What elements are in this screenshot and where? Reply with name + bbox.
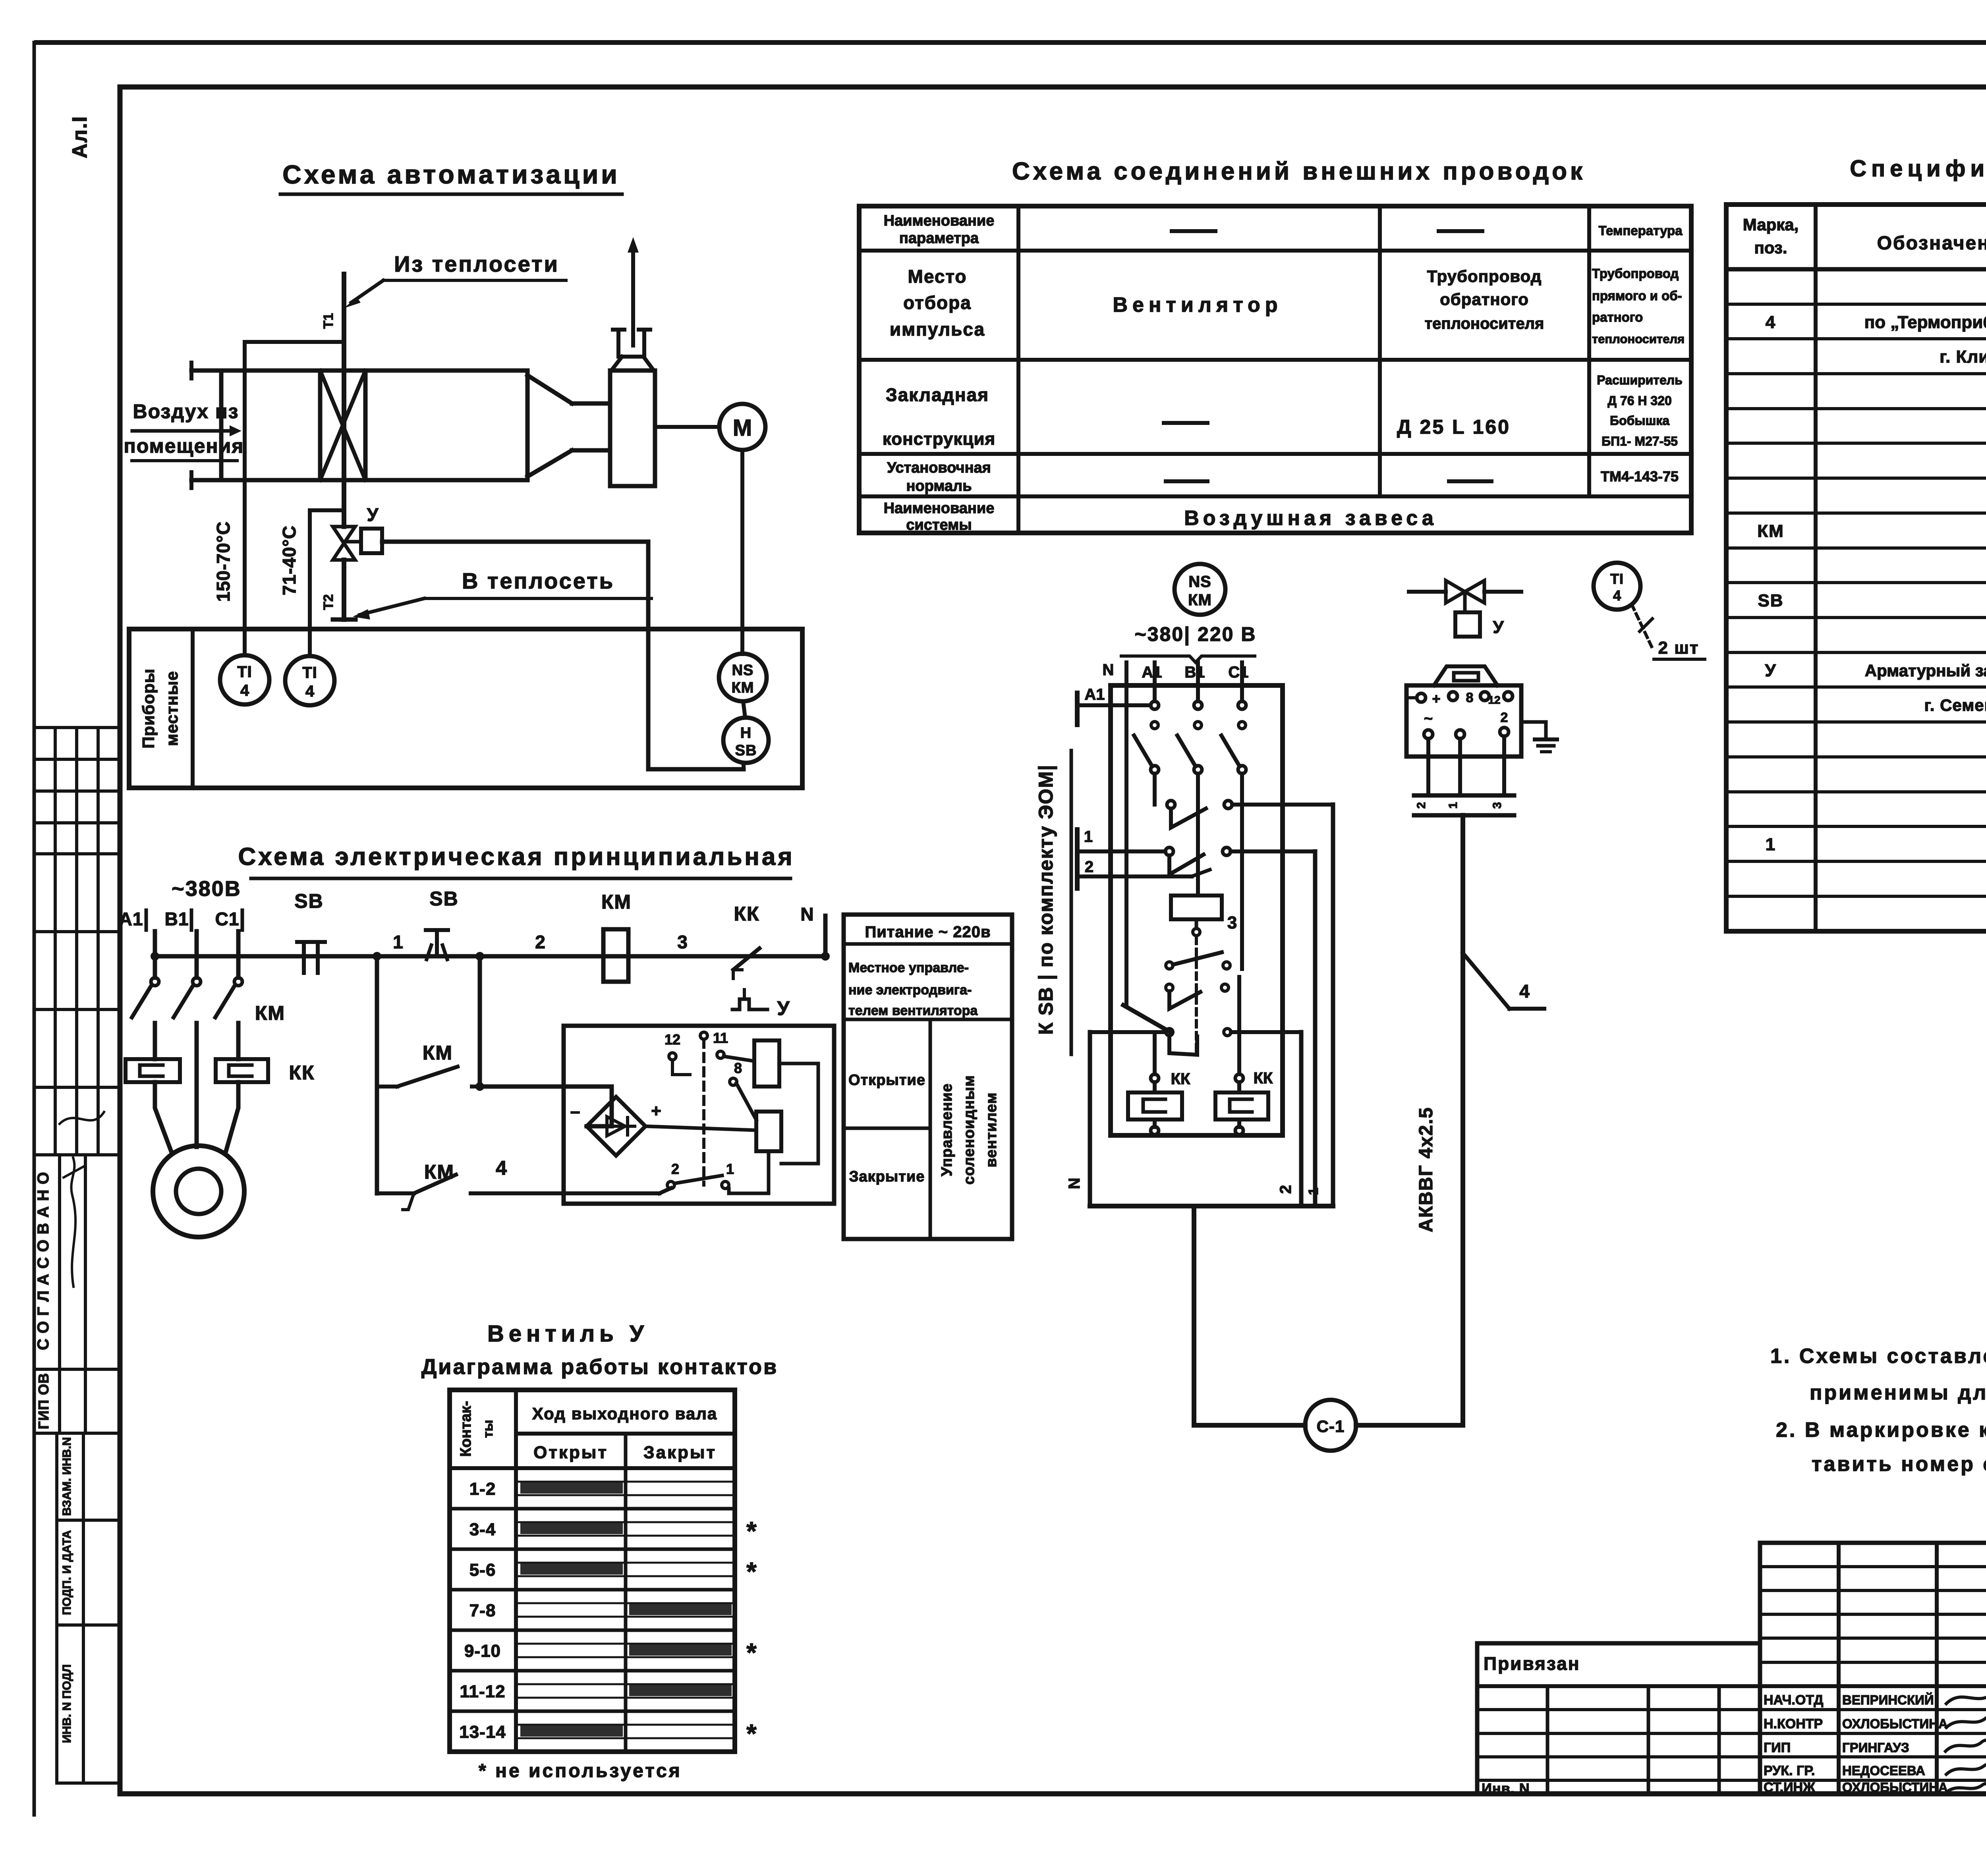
wire solenoid U to panel xyxy=(382,542,744,769)
svg-text:71-40°С: 71-40°С xyxy=(279,525,299,595)
valve terminal box xyxy=(1406,685,1521,757)
svg-text:отбора: отбора xyxy=(903,292,972,313)
svg-text:SB: SB xyxy=(1758,591,1783,610)
left stamp cell Согласовано xyxy=(34,1155,120,1433)
air duct xyxy=(191,363,527,488)
svg-text:КМ: КМ xyxy=(255,1002,285,1024)
long blade and lower contacts xyxy=(1123,1005,1301,1055)
svg-text:8: 8 xyxy=(734,1060,742,1076)
contact diagram table frame xyxy=(450,1390,735,1752)
svg-text:импульса: импульса xyxy=(890,319,985,340)
svg-text:Закрытие: Закрытие xyxy=(849,1168,925,1185)
coil return wires xyxy=(729,1063,818,1193)
svg-text:SB: SB xyxy=(735,742,757,759)
svg-text:ние электродвига-: ние электродвига- xyxy=(848,982,972,998)
contactor coil KM xyxy=(601,891,632,982)
wire M down to NS KM xyxy=(740,450,744,654)
knife contacts 3ph xyxy=(1134,722,1246,805)
svg-text:ты: ты xyxy=(481,1420,496,1438)
svg-text:местные: местные xyxy=(162,671,181,746)
svg-text:Т1: Т1 xyxy=(321,313,336,329)
svg-text:2: 2 xyxy=(1501,710,1508,725)
spec rows content xyxy=(1757,278,1986,923)
svg-text:конструкция: конструкция xyxy=(883,429,995,449)
svg-text:8: 8 xyxy=(1466,690,1474,705)
svg-text:СТ.ИНЖ: СТ.ИНЖ xyxy=(1764,1780,1815,1795)
svg-text:Открытие: Открытие xyxy=(848,1072,925,1089)
svg-text:поз.: поз. xyxy=(1754,238,1787,257)
svg-text:КК: КК xyxy=(1254,1069,1273,1087)
svg-text:Арматурный завод,: Арматурный завод, xyxy=(1865,661,1986,680)
pin 12 xyxy=(665,1031,690,1075)
outer border top xyxy=(37,40,1986,45)
supply drop wires xyxy=(1126,662,1242,1005)
wire tap to TI-2 xyxy=(310,508,341,512)
contact row 3-4 xyxy=(450,1516,757,1549)
svg-text:по „Термоприбор",: по „Термоприбор", xyxy=(1864,313,1986,332)
motor windings wires xyxy=(155,1082,238,1152)
svg-text:N: N xyxy=(800,904,813,924)
svg-text:КМ: КМ xyxy=(601,891,632,913)
svg-text:ратного: ратного xyxy=(1592,310,1643,324)
leader 2 pcs xyxy=(1632,604,1705,659)
svg-text:системы: системы xyxy=(906,517,972,533)
signatures xyxy=(1945,1690,1986,1793)
connections table frame xyxy=(859,206,1691,533)
svg-text:*: * xyxy=(746,1719,757,1748)
header Открыт Закрыт xyxy=(533,1443,717,1462)
terminal row 2 xyxy=(1424,710,1509,739)
svg-text:НАЧ.ОТД: НАЧ.ОТД xyxy=(1764,1693,1823,1708)
terminal strip xyxy=(1414,795,1514,815)
svg-text:БП1- М27-55: БП1- М27-55 xyxy=(1602,434,1678,448)
svg-text:г. Клин: г. Клин xyxy=(1940,347,1986,367)
svg-text:Н.КОНТР: Н.КОНТР xyxy=(1764,1716,1823,1731)
svg-text:12: 12 xyxy=(665,1031,680,1048)
svg-text:У: У xyxy=(367,504,379,525)
bridge dc wire xyxy=(645,1126,756,1130)
svg-text:2: 2 xyxy=(671,1161,679,1177)
svg-text:ТI: ТI xyxy=(1610,571,1624,587)
svg-text:3: 3 xyxy=(677,932,688,952)
mechanical link dashed xyxy=(700,1032,707,1185)
svg-text:4: 4 xyxy=(1519,981,1530,1002)
local control legend table xyxy=(844,915,1012,1239)
svg-text:ОХЛОБЫСТИНА: ОХЛОБЫСТИНА xyxy=(1842,1780,1948,1795)
svg-text:А1: А1 xyxy=(1084,686,1105,703)
svg-text:КМ: КМ xyxy=(1757,521,1784,541)
svg-text:4: 4 xyxy=(1613,587,1621,604)
svg-text:ГИП: ГИП xyxy=(1764,1740,1791,1755)
svg-text:Контак-: Контак- xyxy=(458,1401,474,1457)
starter cabinet box xyxy=(1111,685,1283,1135)
label Воздух из помещения xyxy=(124,400,244,461)
heater element C xyxy=(1215,1082,1268,1119)
svg-text:Бобышка: Бобышка xyxy=(1610,413,1669,428)
svg-text:13-14: 13-14 xyxy=(459,1722,506,1742)
instrument TI (wiring dwg) xyxy=(1594,563,1640,610)
svg-text:Закрыт: Закрыт xyxy=(643,1443,717,1462)
svg-text:Д 25 L 160: Д 25 L 160 xyxy=(1397,416,1511,438)
label Из теплосети with leader arrow xyxy=(344,251,566,308)
svg-text:Воздушная завеса: Воздушная завеса xyxy=(1184,507,1437,530)
svg-text:Местное управле-: Местное управле- xyxy=(848,960,969,975)
solenoid release symbol U xyxy=(732,990,790,1019)
relay block 3 xyxy=(1171,774,1237,936)
wire to rectifier unit xyxy=(480,1087,612,1126)
cable stub A1 xyxy=(1077,686,1151,725)
notes text xyxy=(1770,1345,1986,1476)
control device box xyxy=(564,1026,834,1204)
wire tap to TI-1 xyxy=(245,340,344,344)
outer border left xyxy=(33,42,36,1815)
left margin stamp grid xyxy=(34,728,120,1155)
svg-text:телем вентилятора: телем вентилятора xyxy=(848,1003,978,1018)
pin 11 xyxy=(713,1030,754,1061)
junction A1-bus xyxy=(151,952,159,961)
svg-text:11-12: 11-12 xyxy=(460,1682,505,1701)
KM contact branch 4 xyxy=(377,1157,671,1210)
svg-text:АКВВГ 4х2.5: АКВВГ 4х2.5 xyxy=(1416,1107,1437,1232)
svg-text:С1: С1 xyxy=(215,909,240,929)
svg-text:N: N xyxy=(1103,661,1114,679)
svg-text:Открыт: Открыт xyxy=(533,1443,608,1462)
svg-text:Спецификация элементов систе: Спецификация элементов системы У1 xyxy=(1850,156,1986,181)
instrument TI 4 no.2 xyxy=(285,656,334,705)
valve symbol on line xyxy=(1409,581,1521,603)
Привязан block xyxy=(1477,1643,1760,1797)
terminal row plus 8 12 xyxy=(1406,690,1513,707)
contact row 13-14 xyxy=(459,1719,757,1748)
phase labels A1 B1 C1 xyxy=(119,909,242,930)
svg-text:В1: В1 xyxy=(1184,664,1205,681)
svg-text:ТМ4-143-75: ТМ4-143-75 xyxy=(1601,468,1679,484)
aux contact row a xyxy=(1166,952,1230,969)
svg-text:ИНВ. N ПОДЛ: ИНВ. N ПОДЛ xyxy=(60,1664,73,1743)
svg-text:Управление: Управление xyxy=(939,1083,955,1177)
pushbutton SB xyxy=(426,888,459,959)
svg-text:Место: Место xyxy=(908,266,967,287)
svg-text:КМ: КМ xyxy=(424,1161,454,1183)
contact row 5-6 xyxy=(450,1557,757,1590)
thermal contact KK xyxy=(729,903,760,979)
svg-text:Т2: Т2 xyxy=(321,594,336,610)
svg-text:3: 3 xyxy=(1491,802,1504,809)
thermal element KK phase C xyxy=(216,1059,315,1084)
svg-text:9-10: 9-10 xyxy=(464,1641,501,1661)
personnel rows xyxy=(1477,1710,1986,1780)
cable riser to valve xyxy=(1461,815,1465,1425)
svg-text:ГИП ОВ: ГИП ОВ xyxy=(35,1373,52,1429)
svg-text:+: + xyxy=(1432,691,1440,707)
cable C-1 down xyxy=(1192,1206,1196,1425)
svg-text:Трубопровод: Трубопровод xyxy=(1427,267,1542,286)
svg-text:В теплосеть: В теплосеть xyxy=(462,568,614,593)
svg-text:~380| 220 В: ~380| 220 В xyxy=(1135,623,1257,646)
left stamp cell Подп. и дата xyxy=(57,1530,120,1625)
svg-text:1: 1 xyxy=(1084,828,1093,845)
fan outlet stack xyxy=(611,237,654,371)
svg-text:КМ: КМ xyxy=(423,1042,453,1064)
svg-text:прямого и об-: прямого и об- xyxy=(1592,288,1682,303)
svg-text:Обозначение: Обозначение xyxy=(1877,233,1986,254)
heat exchanger coil xyxy=(320,371,365,480)
cable stubs 1 2 xyxy=(1077,828,1210,888)
svg-text:Закладная: Закладная xyxy=(886,384,989,405)
svg-text:*: * xyxy=(746,1638,757,1667)
svg-text:применимы для системы У1: применимы для системы У1 xyxy=(1810,1381,1986,1404)
svg-text:ВЗАМ. ИНВ.N: ВЗАМ. ИНВ.N xyxy=(60,1437,73,1516)
main contacts KM 3ph xyxy=(132,978,285,1136)
aux contact row b xyxy=(1166,984,1229,1009)
row Место отбора импульса xyxy=(890,266,1685,346)
cable marker C-1 xyxy=(1305,1400,1356,1451)
ground symbol xyxy=(1521,722,1557,752)
svg-text:1: 1 xyxy=(1766,835,1776,854)
svg-text:КК: КК xyxy=(289,1062,315,1084)
spec table header xyxy=(1743,212,1986,263)
svg-text:КК: КК xyxy=(1171,1070,1190,1088)
svg-text:4: 4 xyxy=(1766,313,1776,332)
spec table frame xyxy=(1726,205,1986,931)
row Закладная конструкция xyxy=(883,373,1683,449)
svg-text:У: У xyxy=(1765,661,1776,680)
svg-text:Привязан: Привязан xyxy=(1484,1653,1580,1674)
duct cone xyxy=(527,371,610,480)
svg-text:А1: А1 xyxy=(1142,664,1162,681)
svg-text:1: 1 xyxy=(726,1161,734,1177)
mechanical link dashes xyxy=(1195,937,1198,1056)
svg-text:2: 2 xyxy=(1415,802,1428,809)
svg-text:2: 2 xyxy=(1085,858,1093,876)
svg-text:Из теплосети: Из теплосети xyxy=(394,251,559,276)
svg-text:В1: В1 xyxy=(165,909,189,929)
svg-text:5-6: 5-6 xyxy=(469,1560,496,1580)
svg-text:Установочная: Установочная xyxy=(887,459,991,476)
seal-in contact KM branch xyxy=(377,952,484,1193)
left stamp cell Взам. инв. N xyxy=(57,1433,120,1783)
terminal box hood xyxy=(1434,666,1497,685)
svg-text:Д 76 Н 320: Д 76 Н 320 xyxy=(1607,394,1672,408)
wire labels N A1 B1 C1 xyxy=(1103,661,1249,681)
svg-text:Вентиль У: Вентиль У xyxy=(487,1321,649,1347)
left stamp cell Инв. N подл xyxy=(57,1664,120,1783)
svg-text:SB: SB xyxy=(429,888,458,910)
control valve on pipe xyxy=(333,527,355,560)
svg-text:~380В: ~380В xyxy=(172,877,241,901)
svg-text:1. Схемы составлены для одной: 1. Схемы составлены для одной воздушной … xyxy=(1770,1345,1986,1368)
fan unit box xyxy=(610,371,655,486)
svg-text:ПОДП. И ДАТА: ПОДП. И ДАТА xyxy=(60,1530,73,1615)
heater element A xyxy=(1128,1082,1182,1119)
svg-text:2: 2 xyxy=(1277,1185,1294,1194)
row Наименование параметра xyxy=(884,212,1683,247)
svg-text:2: 2 xyxy=(535,932,545,952)
svg-text:Воздух из: Воздух из xyxy=(133,400,239,423)
svg-text:4: 4 xyxy=(305,683,315,700)
pipe T1 from heat network xyxy=(342,274,346,527)
svg-text:Расширитель: Расширитель xyxy=(1597,373,1683,387)
svg-text:ОХЛОБЫСТИНА: ОХЛОБЫСТИНА xyxy=(1842,1716,1948,1731)
svg-text:N: N xyxy=(1066,1178,1083,1189)
svg-text:У: У xyxy=(1493,618,1504,637)
svg-text:SB: SB xyxy=(294,890,323,912)
title Схема автоматизации xyxy=(280,160,622,194)
svg-text:12: 12 xyxy=(1488,694,1500,706)
svg-text:г. Семенов: г. Семенов xyxy=(1924,696,1986,714)
enclosure bottom bus xyxy=(1090,1185,1333,1206)
phase feeder wires xyxy=(155,931,238,978)
svg-text:11: 11 xyxy=(713,1030,728,1046)
svg-text:соленоидным: соленоидным xyxy=(961,1075,978,1185)
reversing contact block upper xyxy=(1167,801,1333,828)
wires box to strip xyxy=(1428,736,1504,795)
svg-text:4: 4 xyxy=(496,1157,507,1179)
svg-text:ТI: ТI xyxy=(302,664,317,681)
svg-text:Н: Н xyxy=(740,725,752,741)
neutral N stub xyxy=(800,904,830,961)
svg-text:* не используется: * не используется xyxy=(479,1760,682,1781)
svg-text:7-8: 7-8 xyxy=(469,1601,496,1620)
local instruments panel box xyxy=(129,629,802,788)
contact row 11-12 xyxy=(450,1682,735,1711)
wire count tick 4 xyxy=(1463,953,1544,1009)
left stamp signature scribble xyxy=(60,1112,104,1124)
thermal sensors KK terminals xyxy=(1151,774,1273,1088)
personnel names xyxy=(1764,1692,1948,1795)
row Наименование системы xyxy=(884,500,1437,533)
svg-text:1: 1 xyxy=(393,932,403,952)
pin 8 xyxy=(730,1060,756,1120)
svg-text:нормаль: нормаль xyxy=(906,478,972,494)
svg-text:С1: С1 xyxy=(1228,664,1248,681)
svg-text:Инв. N: Инв. N xyxy=(1482,1780,1530,1797)
svg-text:3-4: 3-4 xyxy=(469,1520,496,1539)
svg-text:Трубопровод: Трубопровод xyxy=(1592,266,1679,281)
label В теплосеть with leader arrow xyxy=(353,568,651,620)
valve solenoid U xyxy=(1455,592,1504,637)
svg-text:*: * xyxy=(746,1516,757,1546)
contact row 1-2 xyxy=(450,1479,735,1509)
svg-text:К SB | по комплекту ЭОМ|: К SB | по комплекту ЭОМ| xyxy=(1035,764,1057,1035)
bridge rectifier xyxy=(570,1097,661,1156)
svg-text:NS: NS xyxy=(732,662,754,679)
svg-text:НЕДОСЕЕВА: НЕДОСЕЕВА xyxy=(1842,1763,1925,1778)
svg-text:помещения: помещения xyxy=(124,435,244,457)
svg-text:NS: NS xyxy=(1188,573,1211,591)
svg-text:1-2: 1-2 xyxy=(469,1479,496,1499)
svg-text:Ал.I: Ал.I xyxy=(68,116,91,158)
svg-text:У: У xyxy=(777,997,790,1019)
svg-text:1: 1 xyxy=(1447,802,1460,809)
svg-text:2 шт: 2 шт xyxy=(1658,638,1699,658)
contact row 9-10 xyxy=(450,1638,757,1671)
svg-text:КМ: КМ xyxy=(732,679,754,696)
svg-text:Наименование: Наименование xyxy=(884,212,995,229)
input terminals xyxy=(1151,701,1246,709)
svg-text:КК: КК xyxy=(734,903,759,925)
svg-text:теплоносителя: теплоносителя xyxy=(1425,315,1544,332)
svg-text:обратного: обратного xyxy=(1440,290,1529,309)
motor (double circle) xyxy=(153,1146,244,1237)
svg-text:КМ: КМ xyxy=(1188,591,1212,609)
instrument TI 4 no.1 xyxy=(220,655,269,704)
control bus wire xyxy=(155,954,825,959)
svg-text:Вентилятор: Вентилятор xyxy=(1113,293,1283,317)
enclosure N return xyxy=(1066,1032,1166,1206)
spec table row lines xyxy=(1726,304,1986,896)
right side riser wires xyxy=(1301,805,1333,1206)
switch SB (disconnect) xyxy=(294,890,325,973)
cable loop bottom xyxy=(1194,1423,1463,1428)
row Установочная нормаль xyxy=(887,459,1679,494)
title block outline xyxy=(1760,1543,1986,1794)
solenoid actuator U xyxy=(344,504,382,553)
svg-text:4: 4 xyxy=(240,682,249,699)
header Контакты xyxy=(458,1401,496,1457)
svg-text:Ход выходного вала: Ход выходного вала xyxy=(532,1404,718,1423)
svg-text:Схема электрическая принципи: Схема электрическая принципиальная xyxy=(238,843,794,870)
svg-text:А1: А1 xyxy=(119,909,143,929)
svg-text:тавить номер системы согласно: тавить номер системы согласно табл. 2 xyxy=(1812,1453,1986,1476)
svg-text:Схема соединений внешних пр: Схема соединений внешних проводок xyxy=(1012,158,1586,185)
svg-text:ТI: ТI xyxy=(237,663,252,681)
svg-text:РУК. ГР.: РУК. ГР. xyxy=(1764,1763,1815,1778)
instrument NS KM xyxy=(719,654,767,701)
left stamp cell ГИП ОВ xyxy=(34,1373,120,1433)
bottom terminals xyxy=(1151,1119,1243,1135)
svg-text:ВЕПРИНСКИЙ: ВЕПРИНСКИЙ xyxy=(1842,1692,1934,1707)
relay coil upper xyxy=(754,1040,779,1087)
svg-text:параметра: параметра xyxy=(899,230,979,247)
svg-text:ГРИНГАУЗ: ГРИНГАУЗ xyxy=(1842,1740,1909,1755)
svg-text:150-70°С: 150-70°С xyxy=(213,521,234,602)
svg-text:вентилем: вентилем xyxy=(983,1092,1000,1167)
svg-text:3: 3 xyxy=(1227,913,1237,932)
svg-text:Приборы: Приборы xyxy=(139,668,158,749)
svg-text:~: ~ xyxy=(1424,710,1433,727)
svg-text:1: 1 xyxy=(1306,1188,1321,1195)
svg-text:Схема автоматизации: Схема автоматизации xyxy=(282,160,620,189)
junction node 1 xyxy=(373,932,403,961)
contact row 7-8 xyxy=(450,1601,735,1630)
svg-text:Питание ~ 220в: Питание ~ 220в xyxy=(865,923,991,941)
svg-text:теплоносителя: теплоносителя xyxy=(1592,332,1685,346)
reversing contact block lower xyxy=(1165,847,1315,874)
relay coil lower xyxy=(756,1112,781,1151)
svg-text:Диаграмма работы контактов: Диаграмма работы контактов xyxy=(421,1355,778,1379)
svg-text:С-1: С-1 xyxy=(1317,1417,1345,1436)
thermal element KK phase A xyxy=(126,1059,180,1082)
title block upper grid rows xyxy=(1760,1567,1986,1662)
svg-text:2. В маркировке кабелей вместо: 2. В маркировке кабелей вместо индекса „… xyxy=(1776,1419,1986,1442)
svg-text:М: М xyxy=(733,415,752,441)
motor M xyxy=(719,404,765,450)
instrument H SB xyxy=(723,701,769,763)
svg-text:Марка,: Марка, xyxy=(1743,215,1799,234)
svg-text:Наименование: Наименование xyxy=(884,500,995,517)
svg-text:+: + xyxy=(651,1101,661,1121)
svg-text:−: − xyxy=(570,1103,580,1122)
wire fan to motor xyxy=(655,425,719,429)
svg-text:Температура: Температура xyxy=(1598,223,1683,238)
svg-text:С О Г Л А С О В А Н О: С О Г Л А С О В А Н О xyxy=(35,1172,52,1350)
instrument NS KM (wiring dwg) xyxy=(1175,564,1225,615)
pins 2 and 1 contacts xyxy=(667,1161,734,1189)
rotated note К SB по комплекту ЭОМ xyxy=(1035,751,1071,1054)
title Схема электрическая принципиальная xyxy=(238,843,794,878)
supply label ~380/220V xyxy=(1121,623,1256,662)
